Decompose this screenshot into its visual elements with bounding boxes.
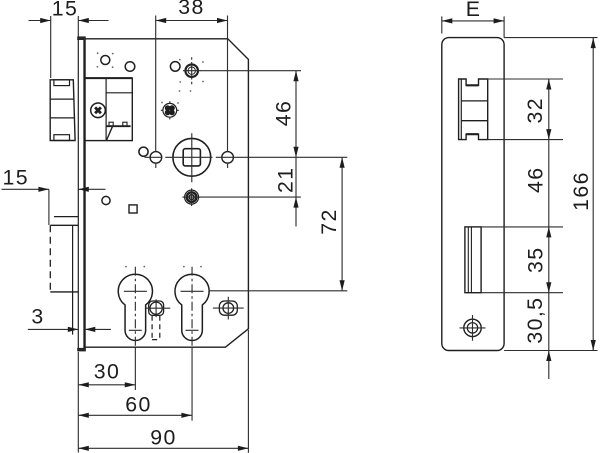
arrowheads left view [38,18,344,451]
cylinder hole right [175,274,209,340]
svg-text:72: 72 [317,208,341,235]
svg-text:32: 32 [523,97,547,124]
dim 30 line [78,384,135,386]
bottom screw S3 [185,190,199,204]
top screw crosshair [183,57,201,84]
fixing screw between cylinders [149,301,164,315]
latch block tab 1 [109,122,113,126]
dim 46 arrows [293,71,298,82]
screw hole plan [464,319,481,336]
svg-text:46: 46 [272,100,296,127]
dim 15 second ext [48,189,50,225]
dim 15 second line [2,188,106,190]
cylinder left crosshair [124,291,147,330]
dim 38 ext lines [156,16,228,152]
dim 21 bottom arrow [293,197,298,208]
dim 72 vertical line [341,157,343,290]
cylinder right vertical centerline [191,267,193,346]
plain hole E [102,196,110,204]
stack arrows [546,79,551,90]
follower horizontal centerline [145,156,348,158]
plain hole C [170,62,180,72]
faceplate front edge [77,37,79,352]
dim 15 top ext lines [51,16,79,78]
leader bottom screw [199,196,301,198]
latch block divider [105,78,107,141]
svg-text:3: 3 [31,304,44,328]
dim 46/21 vertical line [295,71,297,227]
latch bolt head [50,80,75,141]
leaders deadbolt cutout [481,227,563,293]
follower flank hole left [150,152,162,164]
follower outer circle [173,138,211,176]
latch block top edge thick [85,77,133,79]
latch block lower bar [106,125,131,127]
dim 90 line [78,447,248,449]
fixing screw hidden slot dashed [152,316,160,340]
leader faceplate bottom [504,350,597,352]
deadbolt head front dashed [49,225,51,292]
deadbolt head top [50,224,78,226]
dim 72 arrows [340,157,345,168]
latch block tab 2 [123,122,127,126]
leader top screw [200,70,301,72]
deadbolt stem line [72,225,74,334]
latch head bottom notch [54,135,70,141]
latch head band line lower [50,117,74,119]
double-D crosshair [213,297,244,320]
dim E ext [442,16,504,37]
cylinder hole left [118,274,152,340]
latch cutout [459,79,488,140]
dim E line [442,20,504,22]
svg-text:30: 30 [94,360,121,384]
arrowheads right view [442,18,596,361]
double-D hole right [219,301,237,315]
deadbolt head bottom [50,291,78,293]
dim 3 line [28,328,111,330]
case outline [85,39,249,347]
faceplate plan view [442,38,504,351]
flank right vertical tick [227,164,229,168]
latch cutout inner left line [460,79,462,140]
latch block diagonal [106,126,112,140]
dim 15 top line [29,20,109,22]
follower vertical centerline [191,133,193,182]
leaders latch cutout [488,79,563,140]
leader faceplate top [504,37,597,39]
deadbolt cutout stripes [468,227,471,293]
dim 15 arrows [40,18,51,23]
bottom screw crosshair [182,188,200,206]
deadbolt cutout [465,227,481,293]
bottom ext lines [78,330,248,453]
svg-text:15: 15 [3,166,30,190]
knurled screw S2 clover [165,105,175,115]
svg-text:166: 166 [569,171,593,211]
svg-text:E: E [466,0,482,21]
svg-text:60: 60 [125,393,152,417]
flank left vertical tick [155,164,157,168]
dim 60 arrows [78,413,89,418]
phillips screw P1 circle [91,103,106,118]
svg-text:46: 46 [524,166,548,193]
faceplate top cap [77,36,85,40]
svg-text:15: 15 [52,0,79,20]
dim 60 line [78,414,192,416]
fixing screw crosshair [146,299,170,317]
dim 3 arrows [68,327,79,332]
faceplate bottom cap [77,348,86,352]
dim 38 arrows [156,18,167,23]
latch block shelf [106,92,132,94]
latch mechanism block [85,78,133,141]
plain hole D [139,147,148,156]
latch cutout bands [461,101,487,121]
svg-text:21: 21 [274,167,298,194]
leader cylinder [210,290,348,292]
latch head band line upper [50,98,74,100]
plain hole A [101,56,110,65]
top screw S1 [185,64,198,77]
phillips screw P1 cross [95,107,101,113]
knurled screw S2 [163,103,177,117]
deadbolt slot upper line [54,216,78,218]
dim 30 arrows [78,382,89,387]
cylinder right crosshair [181,291,204,330]
dim 38 line [156,20,228,22]
small square hole [129,205,137,213]
dim 166 arrows [591,38,596,49]
latch cutout notch thick edges [466,85,478,134]
follower flank hole right [222,152,234,164]
dim 166 line [592,38,594,351]
plain hole B [125,62,135,72]
small dots [97,52,204,267]
svg-text:38: 38 [178,0,205,19]
dim 15 second arrows [38,187,49,192]
latch head top notch [54,80,70,86]
svg-text:90: 90 [150,426,177,450]
stack dim line [548,79,550,379]
svg-text:30,5: 30,5 [523,297,547,344]
svg-text:35: 35 [524,246,548,273]
screw hole crosshair [460,315,486,341]
knurled screw ticks [161,101,179,119]
cylinder left vertical centerline [134,267,136,346]
dim E arrows [442,18,453,23]
faceplate back edge (thick) [83,37,85,352]
follower square [183,149,200,166]
dim 90 arrows [78,446,89,451]
